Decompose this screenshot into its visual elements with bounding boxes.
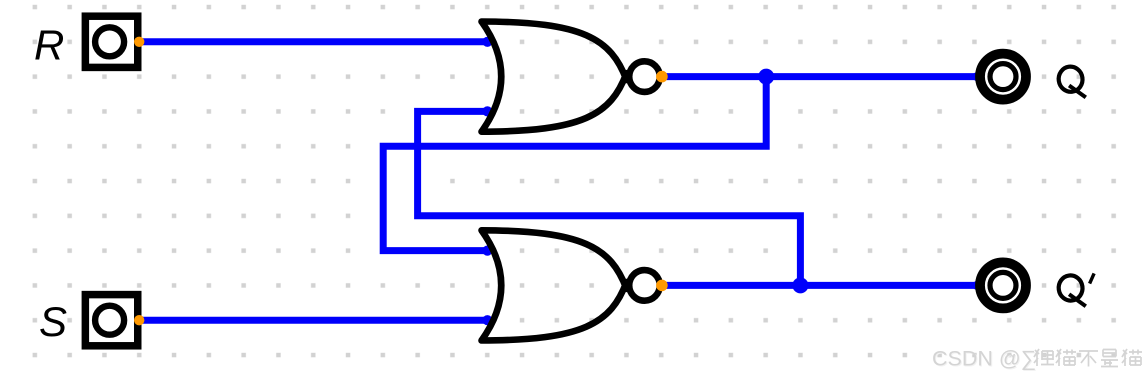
svg-text:S: S: [39, 298, 67, 345]
connection dot pin S: [134, 315, 144, 325]
watermark CJK glyph 2: [1056, 349, 1076, 366]
output pin Q': [980, 262, 1026, 308]
port dot U2 input B: [482, 315, 492, 325]
label Q': [1057, 273, 1094, 306]
output pin Q: [980, 54, 1026, 100]
wire: U1 output to pin Q: [662, 73, 977, 80]
wire: feedback Q to U2 input A: [383, 77, 766, 251]
watermark CJK glyph 4: [1101, 350, 1118, 367]
port dot U2 input A: [482, 246, 492, 256]
junction node Q': [792, 277, 808, 293]
NOR gate U1: [482, 22, 660, 132]
wire end cap at Q': [973, 281, 982, 290]
input pin R: [85, 16, 137, 67]
wire end cap at Q: [973, 72, 982, 81]
watermark CJK glyph 5: [1122, 349, 1142, 366]
svg-text:R: R: [34, 22, 64, 69]
connection dot pin R: [134, 37, 144, 47]
wire: U2 output to pin Q': [662, 282, 977, 289]
port dot U1 input A: [482, 37, 492, 47]
wire: feedback Q' to U1 input B: [418, 111, 801, 285]
input pin S: [85, 295, 137, 346]
connection dot U1 output: [656, 71, 668, 83]
connection dot U2 output: [656, 280, 668, 292]
wire: S pin to U2 input B: [139, 317, 488, 324]
junction node Q: [758, 69, 774, 85]
watermark CJK glyph 3: [1079, 351, 1098, 367]
watermark CSDN text: [932, 347, 1037, 372]
wire: R pin to U1 input A: [139, 38, 488, 45]
NOR gate U2: [482, 230, 660, 340]
watermark CJK glyph 1: [1034, 349, 1054, 366]
svg-text:CSDN @∑: CSDN @∑: [932, 347, 1036, 371]
label Q: [1057, 65, 1086, 97]
port dot U1 input B: [482, 106, 492, 116]
